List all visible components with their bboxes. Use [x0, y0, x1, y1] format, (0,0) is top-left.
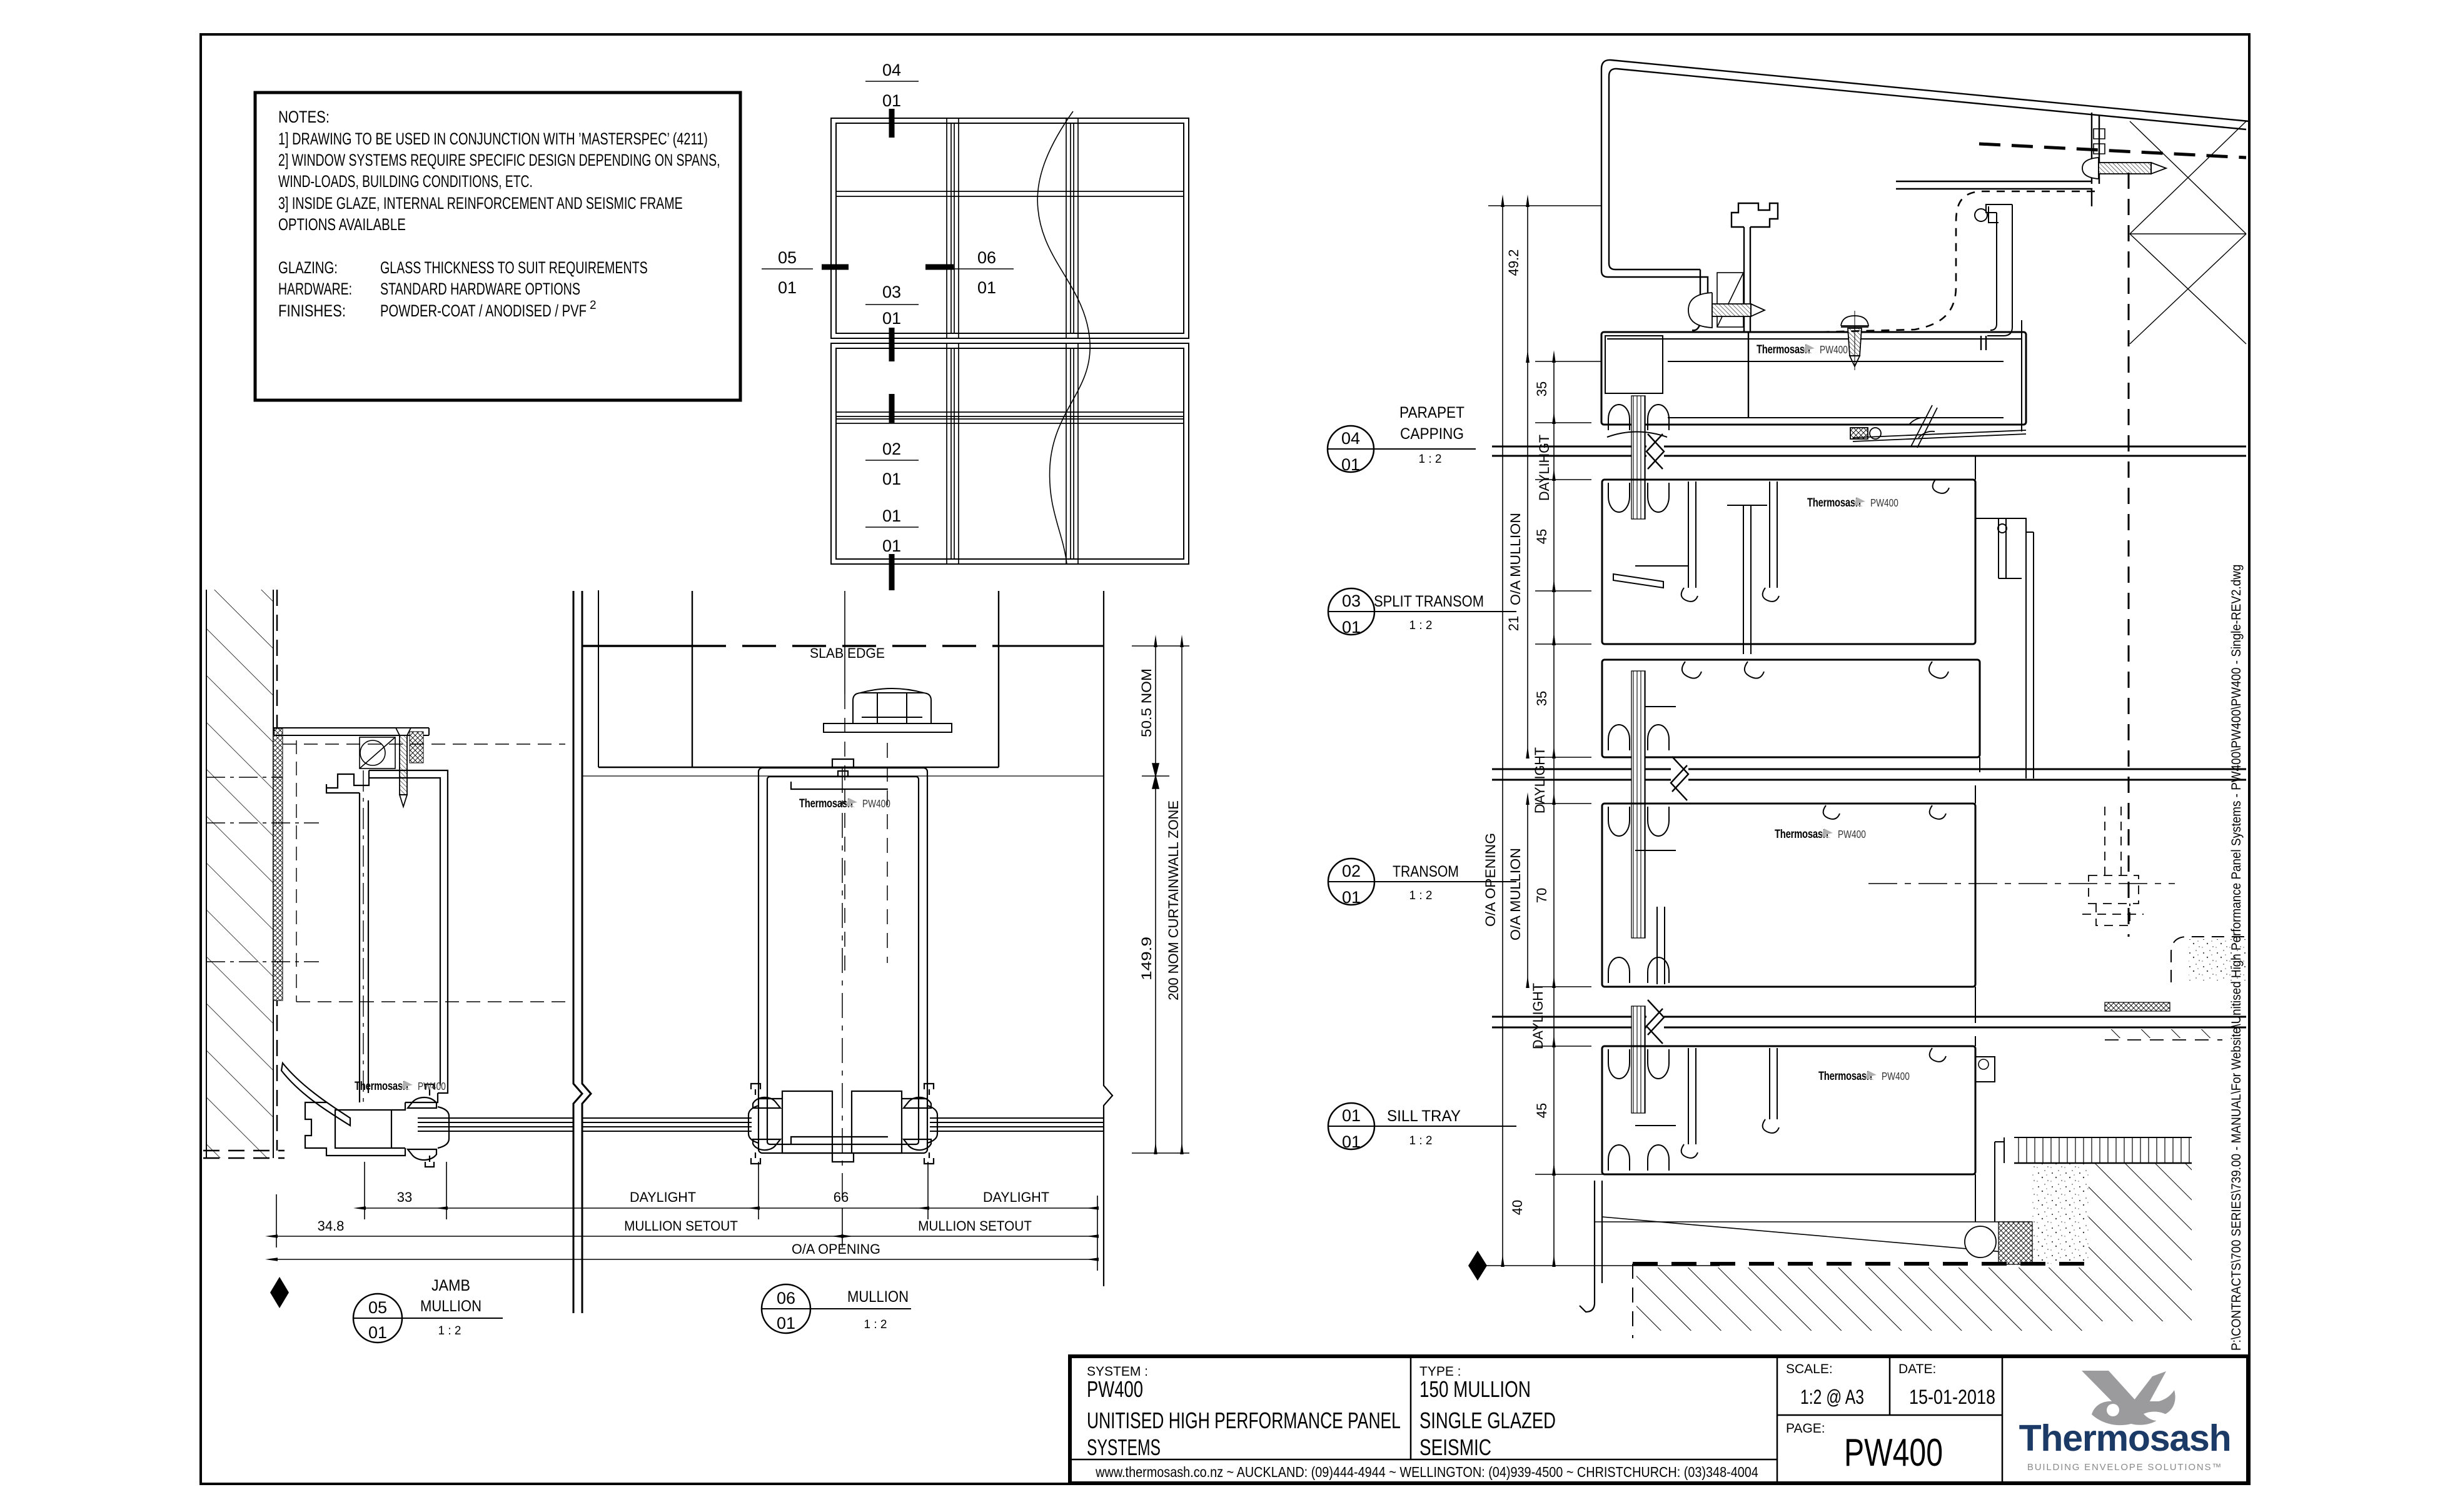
- title block texts: [1087, 1362, 1936, 1436]
- gasket bulbs at strip crossings: [1607, 405, 1669, 1171]
- svg-text:03: 03: [882, 283, 901, 301]
- jamb seal arc to wall: [281, 1063, 350, 1126]
- Thermosash PW400 label (parapet box): [1757, 343, 1848, 356]
- svg-text:DAYLIGHT: DAYLIGHT: [1530, 983, 1546, 1049]
- bracket centreline (dash-dot): [1868, 883, 2175, 884]
- notes box: [255, 93, 740, 400]
- svg-text:01: 01: [1342, 1106, 1361, 1125]
- svg-text:DAYLIGHT: DAYLIGHT: [983, 1189, 1049, 1205]
- callout 02/01 transom: [1328, 859, 1516, 907]
- svg-text:04: 04: [1341, 429, 1360, 448]
- svg-text:OPTIONS AVAILABLE: OPTIONS AVAILABLE: [278, 215, 406, 234]
- parapet screw (horizontal, left): [1688, 293, 1765, 328]
- svg-text:15-01-2018: 15-01-2018: [1909, 1386, 1995, 1409]
- parapet leg profile: [1732, 203, 1778, 418]
- svg-text:SILL TRAY: SILL TRAY: [1387, 1108, 1461, 1125]
- svg-text:01: 01: [368, 1323, 387, 1342]
- projection line mullion centre: [844, 591, 845, 694]
- elevation upper transom: [836, 191, 1184, 196]
- parapet head transom box: [1601, 320, 2026, 431]
- Thermosash PW400 label (sill): [1818, 1069, 1910, 1082]
- svg-text:SPLIT TRANSOM: SPLIT TRANSOM: [1374, 593, 1484, 610]
- svg-text:POWDER-COAT / ANODISED / PVF: POWDER-COAT / ANODISED / PVF: [380, 301, 587, 321]
- window face projection line with break: [1104, 591, 1112, 1286]
- wall hatch block: [206, 590, 273, 1158]
- dimension row 3: O/A OPENING: [276, 1259, 1097, 1260]
- split transom upper box: [1602, 480, 1975, 654]
- svg-text:1 : 2: 1 : 2: [1409, 1134, 1433, 1147]
- svg-text:02: 02: [882, 440, 901, 458]
- parapet screw (horizontal, right): [2082, 158, 2166, 179]
- jamb glazing pocket bottom: [305, 1084, 449, 1167]
- tile strip: [2014, 1137, 2192, 1163]
- dim 200 NOM CURTAINWALL ZONE line: [1181, 646, 1182, 1153]
- svg-text:DAYLIGHT: DAYLIGHT: [1532, 747, 1548, 814]
- right column datum diamond: [1468, 1251, 1487, 1281]
- elevation break wave: [1037, 111, 1090, 564]
- sill tray box: [1602, 1046, 1995, 1174]
- svg-text:01: 01: [1342, 888, 1361, 907]
- svg-text:70: 70: [1534, 888, 1550, 903]
- parapet capping outer skin: [1601, 60, 2249, 330]
- slab edge dashed line: [582, 645, 692, 647]
- svg-text:FINISHES:: FINISHES:: [278, 302, 346, 321]
- svg-text:01: 01: [778, 278, 797, 297]
- svg-text:01: 01: [882, 470, 901, 488]
- callout 02/01 (elevation): [882, 440, 901, 488]
- ground slab hatch: [1636, 1268, 2089, 1331]
- svg-text:HARDWARE:: HARDWARE:: [278, 280, 352, 298]
- svg-text:SCALE:: SCALE:: [1786, 1362, 1833, 1376]
- svg-text:MULLION SETOUT: MULLION SETOUT: [624, 1218, 738, 1234]
- svg-text:01: 01: [1341, 455, 1360, 474]
- jamb packer block: [360, 737, 395, 769]
- jamb fixing screw (vertical): [396, 728, 411, 807]
- callout 03/01 split transom: [1328, 588, 1516, 637]
- jamb hidden dash lines: [206, 740, 567, 1102]
- svg-text:BUILDING ENVELOPE SOLUTIONS™: BUILDING ENVELOPE SOLUTIONS™: [2027, 1462, 2222, 1473]
- jamb head flashing: [274, 728, 429, 735]
- mullion glazing pockets bottom: [749, 1084, 937, 1164]
- parapet right flange: [1896, 113, 2105, 206]
- bottom spigot: [791, 1137, 888, 1144]
- svg-text:06: 06: [777, 1289, 795, 1308]
- sill tray flashing: [1580, 1181, 2089, 1312]
- title block: [1070, 1356, 2248, 1483]
- svg-text:06: 06: [977, 248, 996, 267]
- detail dims: [1553, 361, 1555, 423]
- svg-text:P:\CONTRACTS\700 SERIES\739.00: P:\CONTRACTS\700 SERIES\739.00 - MANUAL\…: [2229, 565, 2244, 1351]
- callout 01/01 (elevation): [882, 507, 901, 555]
- svg-text:21: 21: [1506, 616, 1521, 631]
- svg-text:150 MULLION: 150 MULLION: [1419, 1377, 1531, 1402]
- dimension row 2: 34.8 / MULLION SETOUT x2: [276, 1194, 1097, 1247]
- elevation mullion 1: [947, 118, 959, 564]
- Thermosash PW400 label (jamb): [355, 1079, 446, 1092]
- svg-text:WIND-LOADS, BUILDING CONDITION: WIND-LOADS, BUILDING CONDITIONS, ETC.: [278, 172, 533, 191]
- svg-text:1 : 2: 1 : 2: [864, 1318, 887, 1331]
- Thermosash PW400 label (split transom): [1807, 496, 1898, 509]
- svg-text:05: 05: [368, 1298, 387, 1317]
- svg-text:35: 35: [1534, 691, 1550, 706]
- mullion strip behind band 2: [1631, 671, 1645, 938]
- callout 06/01 (elevation mid): [977, 248, 996, 297]
- svg-text:TRANSOM: TRANSOM: [1393, 862, 1459, 880]
- gasket bulbs right of pocket: [408, 1097, 436, 1108]
- floor hatch band: [2105, 1029, 2222, 1038]
- svg-text:SYSTEMS: SYSTEMS: [1087, 1434, 1161, 1460]
- gasket bulbs right: [904, 1097, 931, 1108]
- svg-text:33: 33: [397, 1189, 412, 1205]
- elevation lower transom: [836, 412, 1184, 423]
- glass pane left (triple line): [418, 1118, 573, 1131]
- elevation lower frame: [831, 343, 1189, 564]
- head box thermal break wedge and gasket: [1850, 405, 2026, 448]
- svg-text:04: 04: [882, 61, 901, 79]
- jamb mullion profile: [326, 770, 448, 1102]
- notes text: [278, 108, 720, 321]
- svg-text:DATE:: DATE:: [1898, 1362, 1936, 1376]
- glass band 2: [1492, 757, 2246, 800]
- svg-text:149.9: 149.9: [1139, 937, 1154, 980]
- mullion centre dashed lines: [842, 694, 887, 1201]
- svg-text:01: 01: [1342, 618, 1361, 637]
- mullion strip behind band 1: [1631, 396, 1645, 519]
- glass band 1: [1492, 434, 2246, 469]
- svg-text:MULLION SETOUT: MULLION SETOUT: [918, 1218, 1032, 1234]
- svg-text:40: 40: [1510, 1200, 1525, 1215]
- svg-text:1] DRAWING TO BE USED IN CONJU: 1] DRAWING TO BE USED IN CONJUNCTION WIT…: [278, 130, 708, 149]
- callout 05/01 jamb mullion: [353, 1277, 503, 1343]
- bracket bolt (hidden, dashed): [2082, 807, 2144, 925]
- parapet gutter membrane (dashed J-curve): [1818, 191, 2095, 332]
- svg-text:O/A OPENING: O/A OPENING: [1483, 833, 1498, 927]
- anchor bolt on slab: [824, 688, 952, 732]
- section break column (glass break): [573, 591, 591, 1313]
- slab block above mullion: [582, 590, 1104, 776]
- svg-text:MULLION: MULLION: [420, 1298, 481, 1315]
- top spigot: [832, 759, 854, 768]
- svg-text:45: 45: [1534, 1103, 1550, 1118]
- right column dim labels (rotated): [1483, 249, 1552, 1216]
- svg-text:SLAB EDGE: SLAB EDGE: [810, 645, 885, 661]
- dim 50.5 NOM / 149.9 line: [1142, 646, 1169, 1153]
- svg-text:2: 2: [590, 299, 597, 312]
- elevation mullion 2: [1066, 118, 1078, 564]
- O/A OPENING full line: [1502, 206, 1503, 1266]
- right column dimension chain: [1469, 206, 1720, 1266]
- svg-text:01: 01: [977, 278, 996, 297]
- svg-text:CAPPING: CAPPING: [1400, 425, 1464, 443]
- svg-text:34.8: 34.8: [318, 1218, 345, 1234]
- packer crosshatch block: [2105, 1002, 2170, 1011]
- svg-text:PW400: PW400: [1087, 1376, 1143, 1401]
- framing X-brace: [2130, 121, 2246, 344]
- svg-text:GLASS THICKNESS TO SUIT REQUIR: GLASS THICKNESS TO SUIT REQUIREMENTS: [380, 258, 648, 277]
- svg-text:35: 35: [1534, 381, 1550, 396]
- building line (dashed vertical): [2128, 173, 2130, 937]
- ground slab heavy dashed top: [1633, 1262, 2089, 1266]
- wall bottom dashed edge: [203, 1151, 285, 1158]
- dimension row 1: 33 / DAYLIGHT / 66 / DAYLIGHT: [365, 1162, 1097, 1219]
- wall face dashed line: [276, 590, 278, 1151]
- svg-text:SEISMIC: SEISMIC: [1419, 1435, 1491, 1460]
- split transom lower box: [1602, 660, 1980, 757]
- svg-text:DAYLIHGT: DAYLIHGT: [1536, 435, 1552, 501]
- sill tray right end upstand: [1975, 1137, 2004, 1222]
- svg-text:1 : 2: 1 : 2: [1419, 453, 1442, 466]
- datum diamond: [270, 1277, 289, 1308]
- callout 05/01 (elevation left): [778, 248, 797, 297]
- extension ticks: [1488, 205, 1601, 206]
- sealant strip on wall face: [273, 728, 283, 1000]
- svg-text:200 NOM CURTAINWALL ZONE: 200 NOM CURTAINWALL ZONE: [1166, 800, 1181, 1000]
- file path vertical text: [2229, 565, 2244, 1351]
- svg-text:SINGLE GLAZED: SINGLE GLAZED: [1419, 1408, 1556, 1433]
- transom box: [1602, 804, 1975, 987]
- svg-text:01: 01: [1342, 1132, 1361, 1151]
- Thermosash PW400 label (transom): [1775, 827, 1866, 840]
- svg-text:UNITISED HIGH PERFORMANCE PANE: UNITISED HIGH PERFORMANCE PANEL: [1087, 1408, 1401, 1433]
- O/A MULLION spans: [1527, 361, 1528, 757]
- svg-text:45: 45: [1534, 529, 1550, 544]
- svg-text:JAMB: JAMB: [431, 1277, 470, 1294]
- frame face connector lines: [1975, 456, 1980, 1046]
- parapet packer block: [1717, 273, 1743, 327]
- svg-text:O/A MULLION: O/A MULLION: [1508, 513, 1523, 605]
- backer rod + gasket: [1965, 1163, 2192, 1321]
- parapet gutter clip: [1975, 204, 2012, 350]
- svg-text:MULLION: MULLION: [847, 1288, 909, 1306]
- jamb sealant wedge: [410, 732, 423, 763]
- svg-text:01: 01: [777, 1314, 795, 1333]
- roof heavy dashed line: [1979, 144, 2246, 158]
- callout 06/01 mullion: [762, 1284, 911, 1333]
- svg-text:PAGE:: PAGE:: [1786, 1421, 1825, 1436]
- mullion box profile: [759, 759, 927, 1162]
- svg-text:O/A MULLION: O/A MULLION: [1508, 848, 1523, 940]
- svg-text:01: 01: [882, 507, 901, 525]
- svg-text:DAYLIGHT: DAYLIGHT: [630, 1189, 696, 1205]
- svg-text:1 : 2: 1 : 2: [1409, 619, 1433, 632]
- glass band 3: [1492, 1000, 2246, 1044]
- gasket bulbs left: [753, 1097, 780, 1108]
- elevation grid: [831, 118, 1189, 564]
- Thermosash PW400 label (mullion): [799, 797, 890, 810]
- svg-text:GLAZING:: GLAZING:: [278, 258, 338, 277]
- concrete corner (dashed) with stipple: [2171, 937, 2247, 982]
- callout 01/01 sill tray: [1328, 1103, 1516, 1151]
- SLAB EDGE text: [810, 645, 885, 661]
- svg-text:1:2 @ A3: 1:2 @ A3: [1800, 1386, 1864, 1409]
- svg-text:STANDARD HARDWARE OPTIONS: STANDARD HARDWARE OPTIONS: [380, 280, 580, 299]
- Thermosash logo: [2019, 1371, 2231, 1473]
- svg-text:49.2: 49.2: [1506, 249, 1521, 276]
- svg-text:PW400: PW400: [1844, 1431, 1943, 1474]
- svg-text:3] INSIDE GLAZE, INTERNAL REIN: 3] INSIDE GLAZE, INTERNAL REINFORCEMENT …: [278, 194, 683, 213]
- svg-text:NOTES:: NOTES:: [278, 108, 330, 127]
- callout 04/01 (elevation top): [882, 61, 901, 110]
- elevation upper frame: [831, 118, 1189, 338]
- split transom gasket bar right: [1975, 518, 2034, 779]
- mullion strip behind band 3: [1631, 1006, 1645, 1113]
- svg-text:01: 01: [882, 91, 901, 110]
- svg-text:03: 03: [1342, 592, 1361, 610]
- parapet screw (vertical, into box): [1841, 311, 1868, 370]
- svg-text:PARAPET: PARAPET: [1399, 404, 1464, 421]
- callout 03/01 (elevation): [882, 283, 901, 328]
- callout 04/01 parapet capping: [1328, 404, 1476, 474]
- svg-text:2] WINDOW SYSTEMS REQUIRE SPEC: 2] WINDOW SYSTEMS REQUIRE SPECIFIC DESIG…: [278, 151, 720, 169]
- svg-text:02: 02: [1342, 862, 1361, 880]
- svg-text:Thermosash: Thermosash: [2019, 1418, 2231, 1459]
- svg-text:66: 66: [834, 1189, 849, 1205]
- svg-text:www.thermosash.co.nz ~ AUCKLA: www.thermosash.co.nz ~ AUCKLAND: (09)444…: [1095, 1464, 1758, 1481]
- glass pane right (triple line): [930, 1118, 1104, 1131]
- svg-text:1 : 2: 1 : 2: [1409, 889, 1433, 902]
- svg-text:50.5 NOM: 50.5 NOM: [1139, 668, 1154, 737]
- svg-text:O/A OPENING: O/A OPENING: [792, 1241, 880, 1257]
- glass pane mid (triple line): [582, 1118, 752, 1131]
- svg-text:01: 01: [882, 537, 901, 555]
- svg-text:05: 05: [778, 248, 797, 267]
- svg-text:1 : 2: 1 : 2: [438, 1324, 461, 1338]
- svg-text:01: 01: [882, 309, 901, 328]
